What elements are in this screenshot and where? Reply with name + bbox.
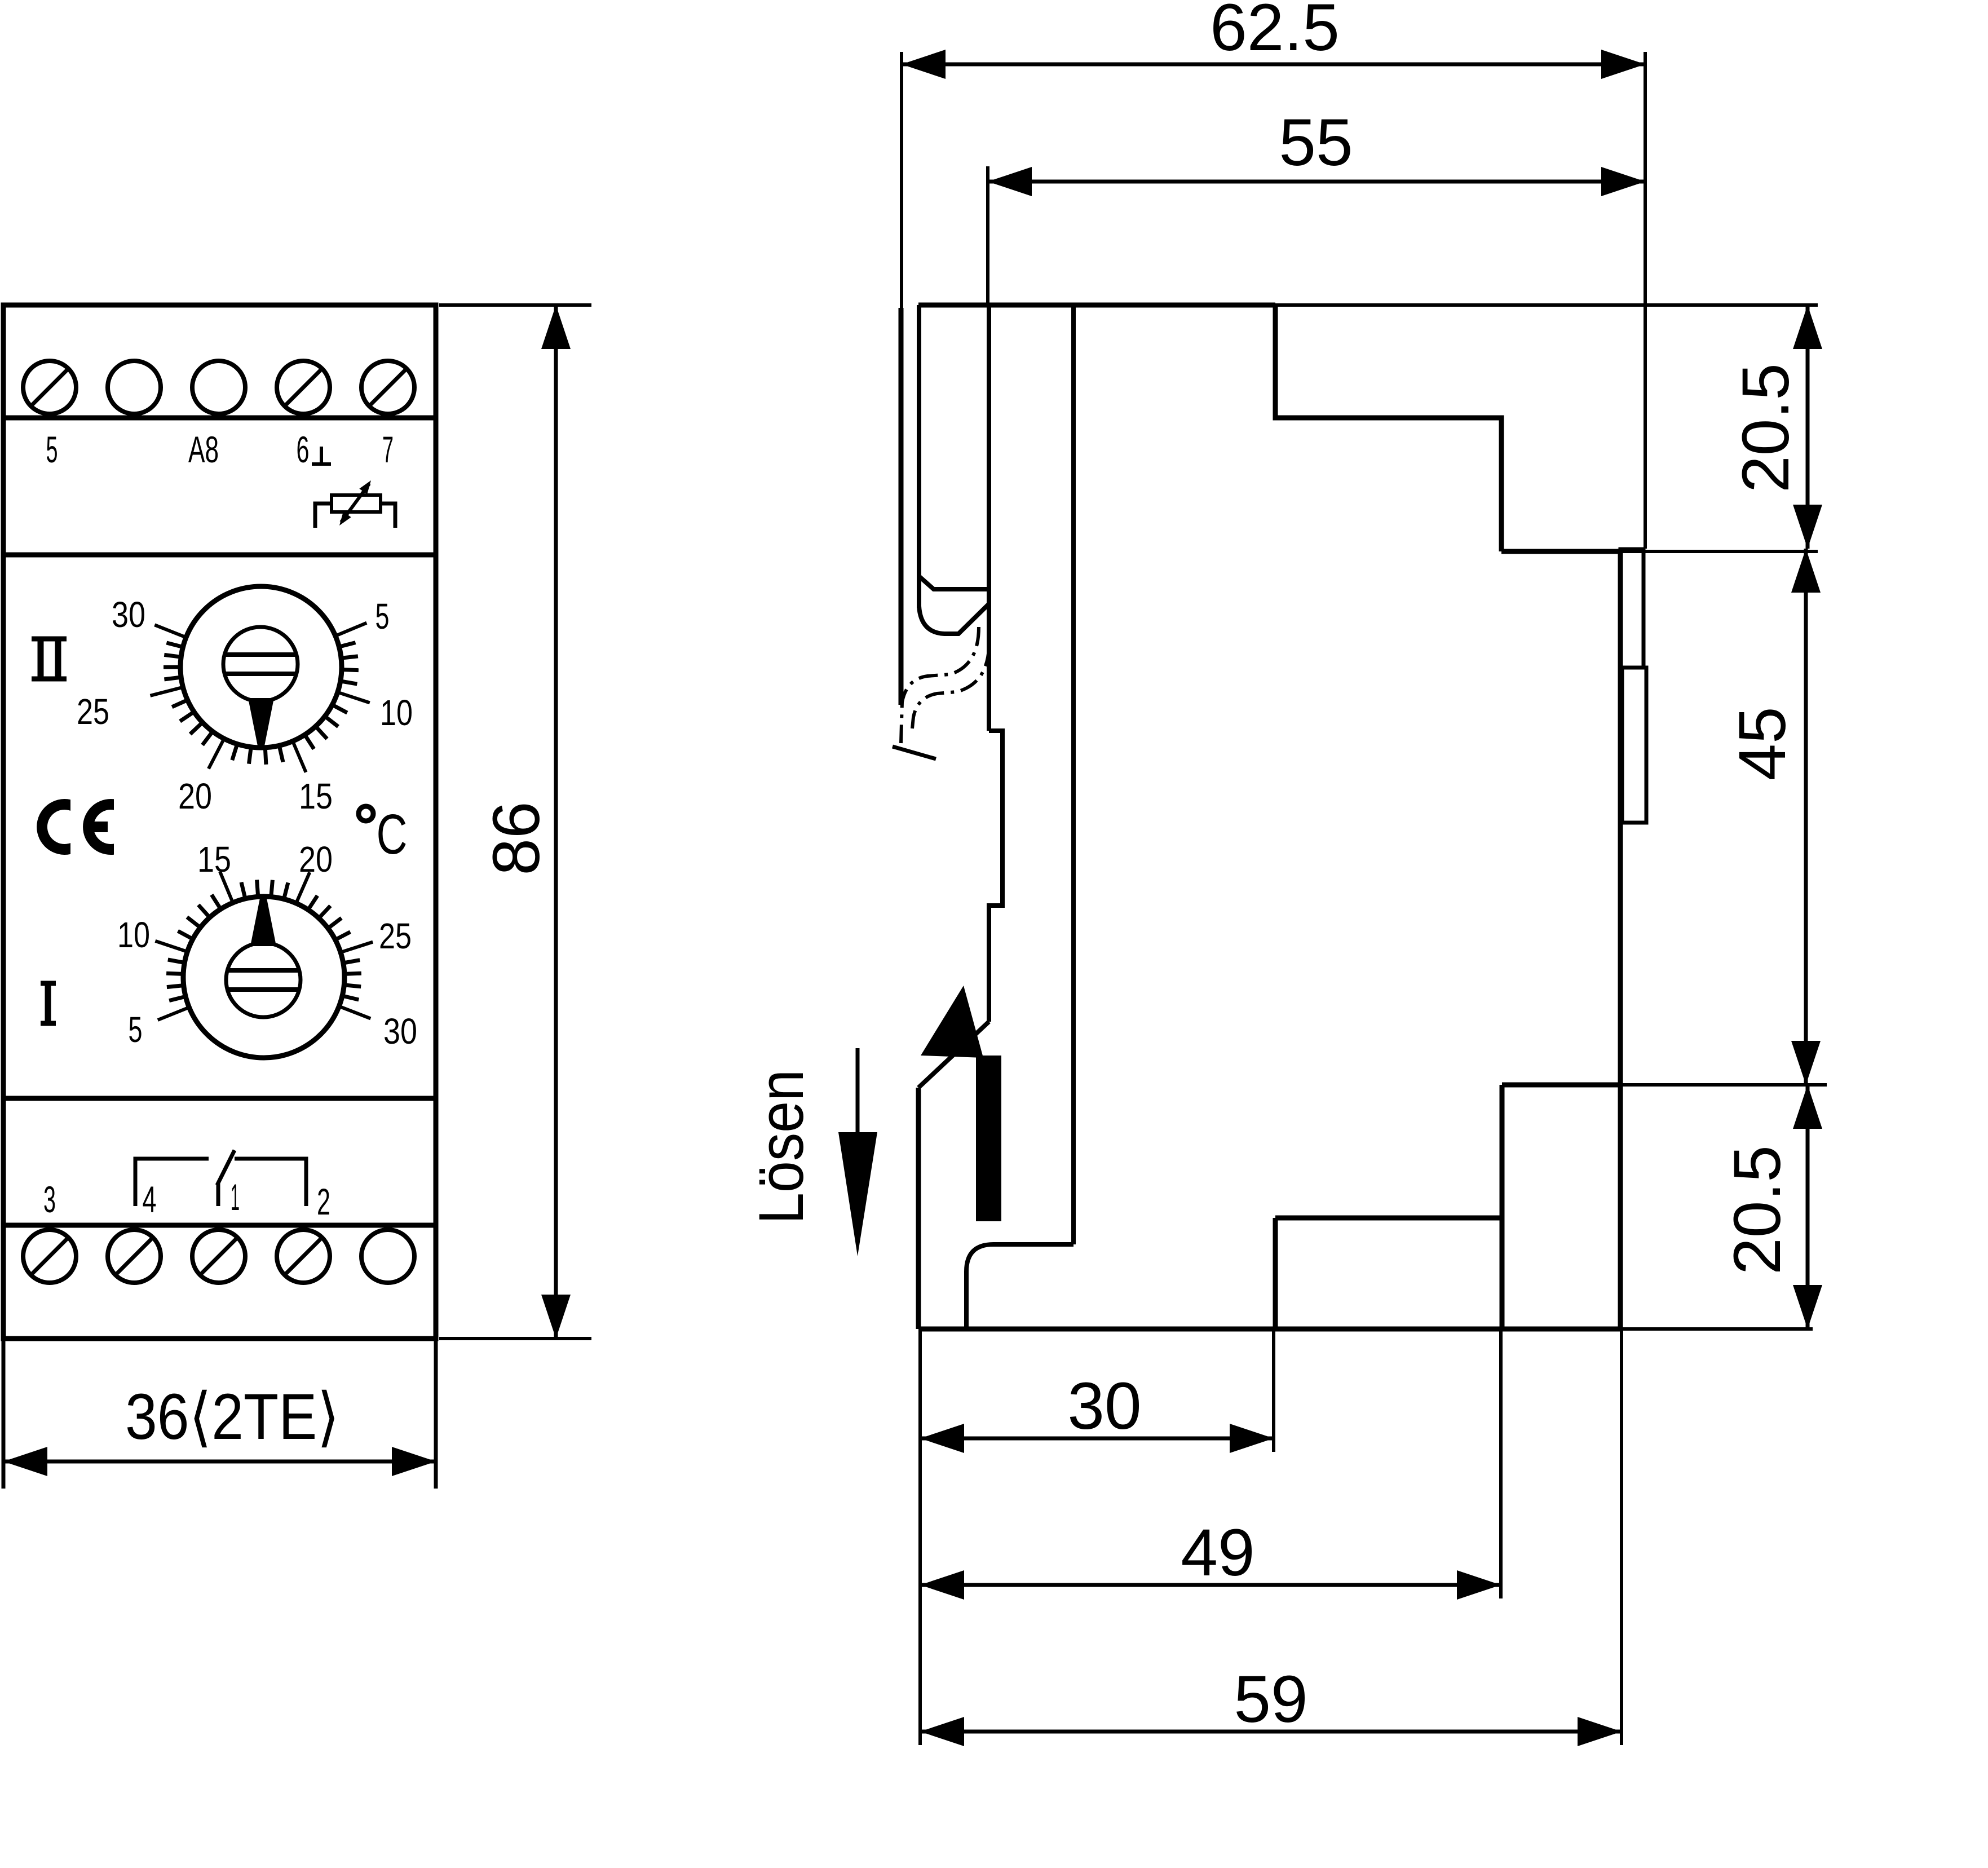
top terminal screw 4 <box>277 361 330 414</box>
bottom dimensions extension lines <box>918 1331 922 1745</box>
bottom edge extension to dimension <box>1620 1327 1813 1331</box>
bottom terminal screw 2 <box>108 1230 161 1283</box>
front view divider line under top screws <box>3 416 436 421</box>
dial I screw slot lines <box>228 968 298 973</box>
front view outer case rectangle <box>3 305 436 1339</box>
dimension 30 line <box>920 1437 1274 1441</box>
svg-text:5: 5 <box>46 429 58 470</box>
earth/probe symbol after 6 <box>320 447 323 464</box>
svg-text:10: 10 <box>117 915 150 955</box>
svg-text:1: 1 <box>231 1176 240 1218</box>
top terminal screw 1 <box>23 361 76 414</box>
potentiometer (sensor) symbol body <box>332 495 381 512</box>
top edge extension to dimension <box>1275 303 1818 307</box>
top terminal screw 5 <box>361 361 414 414</box>
side view inner wall line <box>1071 305 1076 1244</box>
svg-text:4: 4 <box>143 1178 157 1220</box>
svg-text:55: 55 <box>1279 105 1353 180</box>
dial I pointer <box>250 898 276 946</box>
degree symbol <box>359 806 373 821</box>
svg-text:30: 30 <box>112 594 145 635</box>
DIN rail mounting face <box>987 305 991 731</box>
bottom terminal screw 3 <box>192 1230 245 1283</box>
front view divider line under top label strip <box>3 553 436 558</box>
dimension 55 extension line <box>986 166 989 305</box>
svg-text:C: C <box>377 803 408 866</box>
svg-text:36⟨2TE⟩: 36⟨2TE⟩ <box>125 1381 339 1453</box>
dimension 62.5 line <box>902 63 1645 67</box>
top terminal screw 3 <box>192 361 245 414</box>
svg-text:15: 15 <box>299 776 333 816</box>
svg-text:5: 5 <box>375 596 390 637</box>
side view top terminal step <box>1275 305 1501 551</box>
svg-text:45: 45 <box>1725 706 1800 780</box>
bezel top step extension to dimension <box>1620 550 1818 553</box>
svg-text:49: 49 <box>1181 1516 1254 1590</box>
dimension 59 line <box>920 1730 1622 1734</box>
svg-text:6: 6 <box>297 429 310 470</box>
bottom terminal screw 4 <box>277 1230 330 1283</box>
dial II scale ticks <box>154 625 186 637</box>
channel marker II <box>38 641 44 677</box>
dial I outer circle <box>183 897 344 1058</box>
side view lower left edge <box>916 1088 921 1329</box>
dimension 36 line <box>3 1460 436 1464</box>
svg-text:62.5: 62.5 <box>1210 0 1340 65</box>
svg-text:5: 5 <box>129 1009 143 1050</box>
svg-text:10: 10 <box>380 692 413 733</box>
DIN claw outer bottom <box>919 604 989 634</box>
svg-text:30: 30 <box>383 1011 417 1052</box>
front view divider line above bottom screws <box>3 1223 436 1228</box>
svg-text:30: 30 <box>1067 1369 1141 1443</box>
top terminal screw 2 <box>108 361 161 414</box>
side view front face <box>1618 549 1623 1329</box>
front marking tab lower <box>1622 668 1646 823</box>
dial I screw slot circle <box>226 943 301 1017</box>
relay contact symbol <box>135 1159 209 1206</box>
side view bottom edge <box>918 1327 1620 1332</box>
potentiometer right leg <box>382 504 395 528</box>
mounting direction thick arrow shaft <box>976 1056 1001 1221</box>
side view bottom terminal cover front <box>1500 1085 1505 1329</box>
potentiometer adjustment arrow <box>341 484 369 522</box>
dimension 49 line <box>920 1583 1501 1587</box>
released clip phantom outline A <box>901 627 979 743</box>
side view front bezel step top <box>1501 549 1620 554</box>
lower chamfer to bottom left corner <box>918 1022 989 1088</box>
side view bottom terminal step <box>1275 1216 1502 1221</box>
svg-text:A8: A8 <box>188 429 219 470</box>
svg-text:Lösen: Lösen <box>746 1070 816 1224</box>
potentiometer left leg <box>315 504 330 528</box>
DIN clip claw inner edge <box>917 305 921 608</box>
release direction thin arrow <box>856 1048 860 1145</box>
svg-text:20: 20 <box>178 776 212 816</box>
svg-text:15: 15 <box>197 839 231 880</box>
bottom terminal screw 1 <box>23 1230 76 1283</box>
bezel bottom step extension to dimension <box>1620 1083 1827 1087</box>
rail groove jog <box>989 731 1002 1022</box>
released clip phantom outline B <box>912 647 989 728</box>
svg-text:86: 86 <box>479 801 554 875</box>
dimension 86 extension lines <box>439 303 591 307</box>
svg-text:25: 25 <box>77 691 109 732</box>
dimension 62.5 extension lines <box>900 52 903 308</box>
bottom terminal screw 5 <box>361 1230 414 1283</box>
svg-text:20.5: 20.5 <box>1720 1145 1795 1275</box>
svg-text:20.5: 20.5 <box>1729 363 1803 493</box>
dimension 36 extension lines <box>2 1341 6 1489</box>
dial II screw slot lines <box>226 652 295 657</box>
front view divider line above bottom label strip <box>3 1096 436 1101</box>
side view front bezel step bottom <box>1502 1083 1620 1088</box>
dial I scale ticks <box>158 1008 189 1020</box>
svg-text:3: 3 <box>43 1178 56 1220</box>
svg-text:2: 2 <box>317 1181 330 1222</box>
dial II screw slot circle <box>223 627 298 701</box>
front marking tab upper <box>1620 549 1644 668</box>
side view foot recess <box>966 1244 1073 1329</box>
dimension 20.5 bottom line <box>1806 1085 1810 1329</box>
dial II outer circle <box>180 586 342 748</box>
svg-text:25: 25 <box>379 916 412 956</box>
CE mark <box>37 799 70 855</box>
dimension 86 line <box>554 305 558 1339</box>
DIN clip outer face <box>899 308 904 705</box>
mounting direction thick arrow head <box>921 986 983 1058</box>
dimension 20.5 top line <box>1806 305 1810 549</box>
released clip lever tip tick <box>893 747 936 759</box>
dimension 55 line <box>988 180 1645 184</box>
channel marker I <box>45 985 51 1022</box>
DIN claw notch chamfer <box>919 576 990 589</box>
svg-text:7: 7 <box>382 429 394 470</box>
side view top edge <box>918 303 1275 308</box>
dial II pointer <box>248 698 274 746</box>
dimension 45 line <box>1804 549 1808 1085</box>
svg-text:59: 59 <box>1234 1662 1307 1737</box>
svg-text:20: 20 <box>299 839 333 880</box>
